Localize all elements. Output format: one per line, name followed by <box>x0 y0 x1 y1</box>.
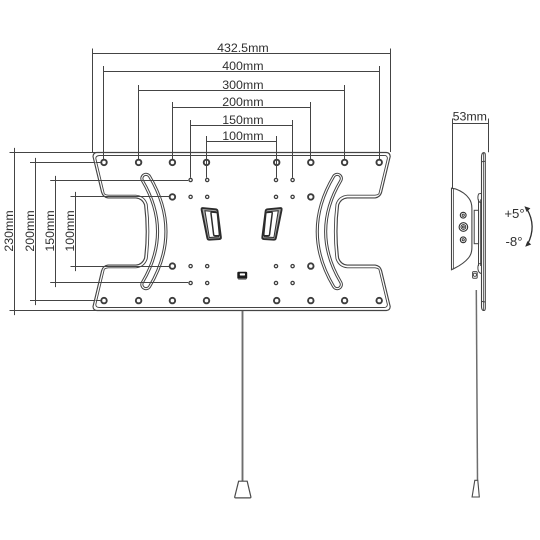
plate inner edge line <box>96 155 388 307</box>
svg-text:150mm: 150mm <box>43 210 57 251</box>
dimension 230mm vertical <box>10 148 97 315</box>
dimension 100mm horizontal <box>207 136 277 178</box>
side pull cord <box>476 290 477 480</box>
right latch buckle <box>262 208 282 240</box>
svg-text:+5°: +5° <box>504 206 524 221</box>
dimension 400mm horizontal <box>104 66 380 159</box>
svg-text:432.5mm: 432.5mm <box>217 41 269 55</box>
svg-text:-8°: -8° <box>506 234 523 249</box>
small holes grid <box>189 178 294 284</box>
svg-text:400mm: 400mm <box>222 59 263 73</box>
side view safety screw <box>473 272 478 279</box>
tilt arc arrow <box>524 206 532 247</box>
side view wall bracket <box>452 188 472 270</box>
dimension 200mm horizontal <box>173 102 311 159</box>
right curved slot <box>321 179 337 285</box>
dimension 100mm vertical <box>71 192 169 271</box>
extension lines over plate <box>96 153 380 301</box>
svg-text:230mm: 230mm <box>2 210 16 251</box>
front cord knob <box>235 481 251 498</box>
VESA mounting holes large <box>101 160 382 304</box>
left curved slot <box>146 179 162 285</box>
side view top hook <box>478 193 482 202</box>
front pull cord <box>242 311 244 481</box>
side view bolt middle <box>459 223 468 232</box>
side view pivot block <box>474 199 480 266</box>
side view bottom hook <box>478 263 482 273</box>
dimension 432.5mm horizontal <box>93 49 391 153</box>
dimension 53mm <box>453 119 489 189</box>
dimension 150mm vertical <box>50 176 188 287</box>
side view bolt top <box>460 212 466 218</box>
svg-text:300mm: 300mm <box>222 78 263 92</box>
plate front view outer outline <box>93 153 390 311</box>
dimension 200mm vertical <box>30 158 100 305</box>
svg-text:100mm: 100mm <box>63 210 77 251</box>
svg-text:150mm: 150mm <box>222 113 263 127</box>
left latch buckle <box>201 208 221 240</box>
dimension 150mm horizontal <box>191 120 293 178</box>
side cord knob <box>472 480 479 497</box>
side view bolt bottom <box>460 237 466 243</box>
svg-text:200mm: 200mm <box>23 210 37 251</box>
svg-text:200mm: 200mm <box>222 95 263 109</box>
svg-text:100mm: 100mm <box>222 129 263 143</box>
side view TV plate bar <box>482 153 486 311</box>
center cable clip <box>237 272 247 280</box>
svg-text:53mm: 53mm <box>453 110 487 124</box>
dimension 300mm horizontal <box>139 85 345 159</box>
